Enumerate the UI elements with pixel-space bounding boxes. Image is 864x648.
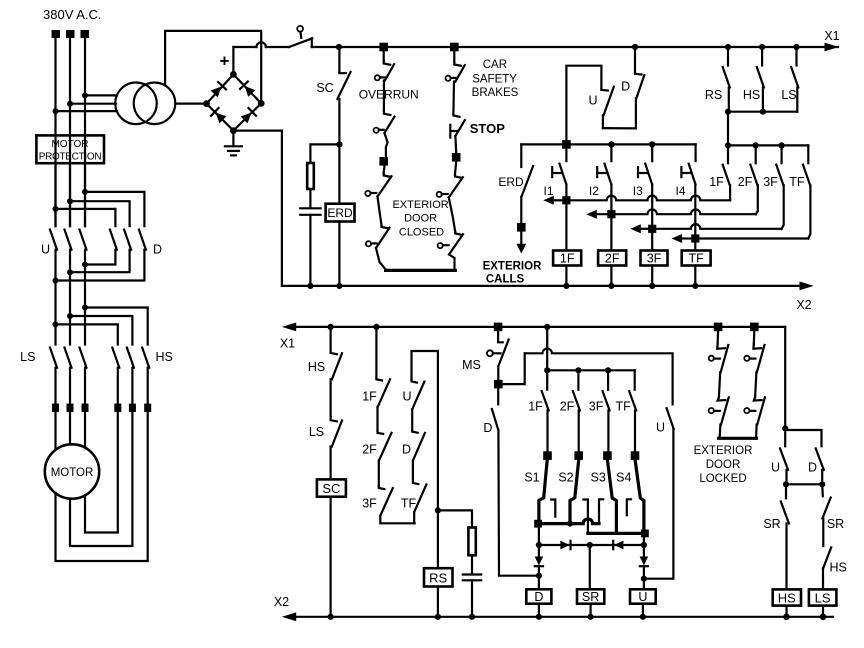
node 3F X2 — [649, 283, 655, 289]
contact OVERRUN 1 — [384, 61, 391, 65]
wire F-chain upper — [375, 327, 377, 377]
contactor LS pole3 — [80, 348, 87, 368]
wire HS to LS — [330, 379, 332, 417]
wire I3 node to coil 3F — [651, 233, 653, 251]
node I2 bus — [608, 141, 614, 147]
terminal I1 node — [562, 196, 570, 204]
wire hop over bridge riser — [257, 42, 266, 47]
contactor U pole2 — [65, 230, 72, 250]
svg-text:TF: TF — [401, 497, 417, 511]
svg-text:LS: LS — [815, 590, 831, 605]
node rejoin1 — [53, 278, 59, 284]
node SR X2 — [588, 614, 594, 620]
svg-text:U: U — [656, 421, 665, 435]
wire I2 line with hops — [616, 209, 756, 214]
svg-text:D: D — [808, 461, 817, 475]
node phase1-transformer — [53, 108, 59, 114]
svg-text:CAR: CAR — [483, 59, 507, 71]
contact exterior-door-closed left lower — [382, 225, 389, 228]
resistor R2 — [468, 528, 475, 556]
node I3 bus — [649, 141, 655, 147]
node S-bus left — [544, 367, 550, 373]
terminal S4 — [631, 451, 640, 460]
svg-text:X2: X2 — [796, 298, 811, 312]
svg-text:S2: S2 — [558, 471, 573, 485]
node hs-split2 — [67, 313, 73, 319]
arrow X2 lower left — [282, 612, 296, 621]
node bridge right — [258, 100, 265, 107]
wire phase1 below box — [54, 137, 56, 226]
coil ERD — [326, 204, 355, 222]
coil LS — [809, 589, 837, 605]
wire door-locked right bottom — [755, 425, 758, 439]
svg-text:DOOR: DOOR — [706, 459, 741, 471]
contact CAR SAFETY BRAKES — [454, 62, 461, 66]
wire U-D chain — [412, 409, 418, 432]
svg-text:3F: 3F — [589, 400, 604, 414]
svg-text:3F: 3F — [362, 497, 377, 511]
svg-text:2F: 2F — [738, 175, 753, 189]
node bridge top — [230, 71, 237, 78]
node HS join — [760, 109, 766, 115]
node hs-split1 — [53, 321, 59, 327]
selector S4 blade — [635, 460, 644, 528]
contact D (loop) — [635, 73, 642, 75]
svg-text:LS: LS — [309, 425, 324, 439]
capacitor C2 — [463, 573, 481, 575]
node 3F f-bus — [779, 142, 785, 148]
svg-text:SAFETY: SAFETY — [472, 74, 517, 86]
contactor D pole2 — [124, 230, 131, 250]
wire U loop lower — [602, 115, 604, 128]
wire door block bottom — [386, 269, 456, 272]
wire UD branch down — [634, 47, 636, 73]
svg-text:HS: HS — [308, 360, 325, 374]
node HS X2 — [783, 614, 790, 621]
terminal MS branch — [494, 323, 503, 332]
node diode row left — [536, 542, 542, 548]
overload OL5 — [129, 404, 136, 412]
wire to resistor R1 — [310, 144, 339, 163]
wire hs-split2 — [70, 316, 132, 345]
svg-text:X1: X1 — [280, 337, 295, 351]
terminal I4 node — [691, 234, 699, 242]
selector S4 spare throw — [627, 499, 631, 515]
wire I2 node to coil 2F — [610, 218, 612, 250]
svg-text:S1: S1 — [524, 471, 539, 485]
node phase3-transformer — [82, 92, 88, 98]
node S-bus 3F — [605, 367, 611, 373]
node hs-split3 — [82, 305, 88, 311]
wire LS coil to X2 — [822, 606, 824, 617]
node U X2 — [640, 614, 646, 620]
wire lineA down to diode row — [538, 524, 540, 545]
node RS join — [725, 109, 731, 115]
svg-text:U: U — [771, 461, 780, 475]
node rejoin2 — [67, 269, 73, 275]
node RS X2 — [435, 614, 441, 620]
wire door-locked left bottom — [718, 425, 721, 439]
wire lineB down to diode row — [643, 533, 645, 545]
terminal I3 node — [648, 225, 656, 233]
wire D2out to line2 — [70, 250, 130, 273]
contact I2 — [610, 146, 612, 161]
overload OL4 — [114, 404, 121, 412]
svg-text:I2: I2 — [589, 184, 599, 198]
node U coil join — [641, 576, 647, 582]
contactor D pole3 — [139, 230, 146, 250]
wire split2 to D2in — [70, 201, 130, 226]
contact D (MS branch) — [492, 409, 498, 430]
wire hs-split1 — [56, 324, 118, 344]
wire U coil to X2 — [642, 604, 644, 617]
wire X2 upper rail — [282, 285, 800, 287]
svg-text:D: D — [534, 590, 543, 604]
node rejoin3 — [82, 262, 88, 268]
contact STOP (pushbutton) — [453, 114, 459, 117]
coil U — [630, 589, 656, 603]
wire 2F-3F chain — [378, 461, 380, 487]
svg-text:1F: 1F — [362, 390, 377, 404]
node F-chain branch — [373, 324, 379, 330]
wire I3 line with hop — [656, 224, 781, 229]
svg-text:D: D — [153, 243, 162, 257]
arrow I3 — [641, 228, 653, 230]
wire RS coil to X2 — [437, 587, 439, 617]
wire resistor to capacitor — [309, 189, 311, 207]
svg-text:X2: X2 — [274, 595, 289, 609]
wire overrun to terminal — [385, 133, 388, 158]
wire HS coil to X2 — [785, 606, 787, 617]
svg-text:SR: SR — [827, 517, 844, 531]
capacitor C1 — [300, 207, 320, 209]
wire TF chain bottom — [413, 512, 415, 523]
wire resistor to capacitor C2 — [471, 555, 473, 574]
svg-text:DOOR: DOOR — [404, 213, 437, 225]
contactor LS pole1 — [50, 348, 57, 368]
contact ERD (no) — [520, 144, 522, 167]
selector S1 blade — [539, 460, 547, 524]
overload OL2 — [67, 404, 74, 412]
contact 3F (aux right) — [780, 145, 782, 163]
diode D4 lower-right — [240, 108, 256, 124]
wire door left mid — [378, 197, 382, 226]
node D coil join — [536, 573, 542, 579]
wire top rail left of hop — [233, 46, 256, 48]
wire SC branch lower — [338, 99, 340, 144]
node RS branch — [435, 507, 441, 513]
svg-text:HS: HS — [778, 590, 796, 605]
node SC branch — [336, 44, 342, 50]
svg-text:ERD: ERD — [498, 175, 524, 189]
svg-text:I3: I3 — [633, 184, 643, 198]
svg-text:I4: I4 — [675, 184, 685, 198]
wire D3out to line1 — [56, 250, 145, 281]
arrow X2 upper right — [800, 282, 814, 291]
coil D — [526, 589, 551, 603]
diode D2 upper-right — [240, 81, 256, 97]
wire I4 node to coil TF — [694, 243, 696, 251]
contact I4 — [694, 144, 696, 161]
svg-text:S3: S3 — [591, 471, 606, 485]
wire motor loop outer — [56, 412, 148, 561]
terminal S2 — [574, 451, 583, 460]
terminal car-safety branch — [450, 43, 459, 52]
coil SC — [317, 479, 346, 496]
svg-text:U: U — [588, 94, 597, 108]
contactor U pole1 — [50, 230, 57, 250]
contactor D pole1 — [110, 230, 117, 250]
wire phase3 vertical — [84, 38, 86, 226]
contact U (chain) — [412, 380, 418, 383]
node S-branch on X1 — [544, 324, 550, 330]
contactor HS pole2 — [127, 348, 134, 368]
svg-text:3F: 3F — [763, 175, 778, 189]
node HS on X1 — [759, 44, 765, 50]
wire motor loop inner — [85, 412, 118, 533]
wire X1 lower rail — [295, 326, 785, 328]
svg-text:SR: SR — [763, 517, 780, 531]
node diode row right — [641, 542, 647, 548]
diode D8 (down, right leg) — [643, 545, 645, 557]
wire RS-HS-LS join — [728, 111, 797, 113]
diode D1 upper-left — [210, 82, 226, 98]
wire I2 to node — [610, 184, 612, 214]
wire bridge bottom to X2upper — [233, 131, 282, 286]
node LS X2 — [820, 614, 827, 621]
svg-text:RS: RS — [429, 570, 447, 585]
wire I4 line — [699, 237, 808, 239]
svg-text:2F: 2F — [560, 400, 575, 414]
svg-text:CLOSED: CLOSED — [399, 227, 444, 239]
svg-text:1F: 1F — [528, 400, 543, 414]
diode D5 (right-pointing) — [560, 541, 569, 550]
contactor HS pole1 — [112, 348, 119, 368]
wire S-branch riser — [546, 327, 548, 370]
node cap X2 — [307, 283, 313, 289]
wire select lineA with hop — [539, 519, 599, 524]
terminal I-bus junction — [562, 140, 571, 149]
coil TF — [682, 251, 711, 266]
terminal MS out — [494, 380, 503, 389]
contact 2F (aux right) — [755, 145, 757, 163]
wire D-TF chain — [413, 461, 419, 484]
wire transformer top riser — [165, 31, 261, 104]
wire car-safety upper — [453, 51, 455, 62]
wire D8 to U-coil node — [643, 566, 645, 589]
wire stop to terminal — [454, 136, 457, 153]
coil 2F — [598, 251, 626, 266]
wire car-safety mid — [452, 82, 455, 114]
svg-text:BRAKES: BRAKES — [472, 87, 519, 99]
wire D branch down to D coil — [498, 430, 535, 576]
svg-text:S4: S4 — [616, 471, 631, 485]
wire MS out to U-branch riser — [503, 353, 525, 384]
terminal L3 — [81, 30, 90, 38]
wire door right to bottom — [449, 255, 455, 271]
wire phase2 below box — [69, 137, 71, 226]
contact exterior-door-closed right upper — [455, 162, 456, 174]
svg-text:U: U — [41, 243, 50, 257]
node split3 — [82, 189, 88, 195]
wire coil TF to X2 — [694, 266, 696, 286]
motor protection box MP — [36, 135, 104, 163]
contact door-locked R1 — [753, 331, 756, 344]
contact exterior-door-closed right lower — [455, 232, 462, 235]
contact exterior-door-closed left upper — [383, 166, 386, 173]
contact SR (right leg, mirrored) — [821, 484, 824, 496]
wire UD rejoin bar — [786, 483, 822, 485]
wire chain bottom — [380, 516, 414, 524]
node UD branch on X1 — [632, 44, 638, 50]
svg-text:2F: 2F — [362, 443, 377, 457]
node C2 X2 — [469, 614, 475, 620]
wire overrun upper — [383, 51, 385, 61]
terminal door-locked left — [714, 323, 723, 332]
wire D7 to D-coil node — [538, 566, 540, 589]
coil SR — [577, 589, 604, 603]
svg-text:CALLS: CALLS — [486, 274, 525, 286]
contact MS — [497, 331, 499, 342]
node LS on X1 — [793, 44, 799, 50]
wire S-bus — [547, 369, 635, 371]
contact TF (aux right) — [807, 145, 809, 163]
coil HS — [773, 589, 801, 605]
svg-text:OVERRUN: OVERRUN — [359, 88, 419, 102]
wire split3 to D3in — [85, 192, 144, 226]
contactor U pole3 — [80, 230, 87, 250]
node rejoin right — [819, 481, 825, 487]
node S-bus 2F — [575, 367, 581, 373]
wire door-locked bottom bar — [719, 437, 757, 440]
contact HS (top right) — [761, 47, 763, 66]
wire ERD coil to X2upper — [338, 222, 340, 286]
wire door-locked left mid — [719, 372, 720, 397]
node split2 — [67, 198, 73, 204]
wire X1 lower right riser — [784, 327, 786, 429]
svg-text:D: D — [621, 80, 630, 94]
wire diode row — [539, 544, 644, 546]
wire UD loop top — [566, 66, 601, 145]
svg-text:EXTERIOR: EXTERIOR — [483, 261, 542, 273]
node rejoin left — [783, 481, 789, 487]
node F-bus left — [725, 142, 731, 148]
main switch SW1 — [297, 26, 303, 32]
svg-text:3F: 3F — [647, 252, 662, 266]
wire I-bus — [521, 143, 695, 145]
contact SC (aux) — [339, 71, 346, 74]
contact 1F (chain) — [376, 377, 382, 380]
coil 3F — [641, 251, 668, 266]
overload OL6 — [144, 404, 151, 412]
svg-text:LS: LS — [20, 350, 35, 364]
arrow X1 right — [825, 43, 839, 52]
motor M1 — [45, 444, 99, 498]
selector S1 spare throw — [551, 500, 555, 517]
wire 1F-2F chain — [376, 407, 378, 431]
terminal overrun mid — [379, 157, 388, 166]
svg-text:LS: LS — [781, 88, 796, 102]
terminal exterior calls — [517, 223, 526, 232]
contact door-locked R2 — [754, 397, 762, 400]
wire capacitor to X2upper — [309, 215, 311, 286]
wire mid node to SR coil — [589, 545, 591, 589]
wire MS out down to D contact — [497, 388, 499, 404]
wire I1 to node — [565, 184, 567, 200]
terminal door-locked right — [750, 323, 759, 332]
svg-text:TF: TF — [689, 252, 705, 266]
terminal L2 — [66, 30, 75, 38]
node bridge left — [203, 100, 210, 107]
wire phase1 to transformer — [56, 110, 118, 112]
wire door right mid — [449, 198, 455, 232]
selector S2 throw to lineB — [583, 500, 588, 534]
overload OL3 — [82, 404, 89, 412]
contactor HS pole3 — [142, 348, 149, 368]
svg-text:HS: HS — [743, 88, 760, 102]
svg-text:U: U — [402, 390, 411, 404]
diode D6 (left-pointing) — [614, 541, 623, 550]
overload OL1 — [52, 404, 59, 412]
contact 2F (chain) — [378, 431, 384, 434]
ground — [225, 131, 242, 156]
svg-text:TF: TF — [789, 175, 805, 189]
node UD split lower right — [782, 425, 788, 431]
wire MS line to U contact with hop — [525, 349, 673, 405]
contact SR (left leg) — [785, 484, 787, 498]
node diode row mid — [587, 542, 593, 548]
coil RS — [424, 568, 453, 586]
diode D3 lower-left — [211, 108, 227, 124]
contact door-locked L2 — [718, 397, 726, 400]
selector S3 throw to lineA — [599, 499, 603, 523]
wire phase3 below box — [84, 137, 86, 226]
node RS on X1 — [725, 44, 731, 50]
svg-text:380V A.C.: 380V A.C. — [43, 7, 102, 22]
svg-text:TF: TF — [616, 400, 632, 414]
wire capacitor to X2 — [471, 580, 473, 617]
node phase2-transformer — [67, 101, 73, 107]
node SC X2 — [328, 614, 334, 620]
wire U far right down — [647, 429, 673, 579]
wire X1 top rail — [312, 46, 838, 48]
svg-text:1F: 1F — [560, 252, 575, 266]
svg-text:EXTERIOR: EXTERIOR — [392, 199, 448, 211]
contact HS (SC chain) — [331, 350, 337, 354]
svg-text:SC: SC — [322, 481, 340, 496]
svg-text:D: D — [483, 421, 492, 435]
wire D loop lower — [635, 98, 637, 128]
svg-text:D: D — [402, 443, 411, 457]
contact OVERRUN 2 — [384, 111, 391, 115]
node RC branch — [336, 141, 342, 147]
contact U (far right) — [667, 408, 674, 429]
contact I3 — [651, 146, 653, 161]
contact TF (selector feed) — [634, 370, 636, 389]
terminal S3 — [603, 451, 612, 460]
arrow I4 — [682, 237, 696, 239]
wire coil 1F to X2 — [565, 266, 567, 286]
wire HS outs — [117, 368, 119, 404]
wire SC coil to X2 — [330, 497, 332, 617]
contact HS (right leg, mirrored) — [823, 547, 831, 568]
arrow X1 lower left — [282, 323, 296, 332]
terminal S1 — [543, 451, 552, 460]
node TF X2 — [692, 283, 698, 289]
wire D coil to X2 — [538, 604, 540, 617]
wire to D side — [785, 430, 821, 446]
wire coil 2F to X2 — [610, 266, 612, 286]
